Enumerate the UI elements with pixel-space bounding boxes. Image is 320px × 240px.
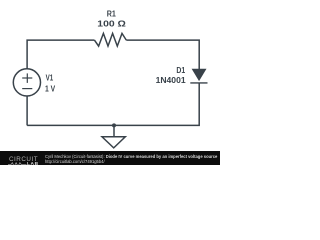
CircuitLab logo word CIRCUIT: [9, 156, 38, 163]
footer url line 2: [45, 159, 105, 164]
voltage source V1 circle: [13, 69, 40, 96]
wire left vertical below V1: [26, 96, 28, 125]
V1 minus sign: [22, 88, 32, 90]
resistor R1 zigzag: [94, 33, 126, 46]
wire top horizontal right segment and right vertical down to diode: [126, 40, 199, 69]
junction dot at ground node: [112, 123, 116, 127]
svg-text:1N4001: 1N4001: [156, 76, 187, 85]
wire diode cathode to bottom horizontal: [27, 83, 199, 126]
svg-text:R1: R1: [107, 10, 117, 19]
wire left vertical above V1 and top horizontal to resistor: [27, 40, 94, 69]
svg-text:V1: V1: [46, 74, 54, 83]
diode D1 cathode bar: [190, 82, 207, 84]
diode D1 triangle: [192, 69, 207, 81]
footer credit line 1: [45, 154, 217, 159]
svg-text:1 V: 1 V: [45, 84, 56, 93]
ground stub wire: [113, 125, 115, 136]
CircuitLab logo zigzag: [8, 162, 27, 167]
V1 plus sign: [22, 77, 32, 79]
svg-text:D1: D1: [176, 66, 185, 75]
CircuitLab logo word LAB: [27, 162, 39, 167]
footer bar: [0, 151, 220, 165]
ground triangle: [102, 137, 125, 148]
svg-text:100 Ω: 100 Ω: [97, 20, 126, 29]
